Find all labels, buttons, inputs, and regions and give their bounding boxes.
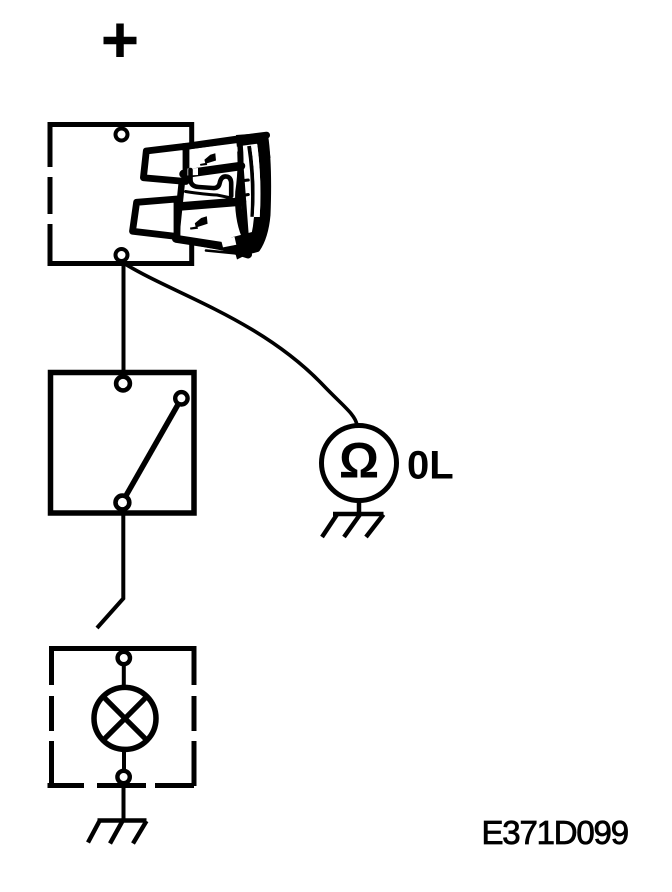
fuse top section mark <box>200 153 216 166</box>
fuse element channel <box>191 170 232 196</box>
fuse box top terminal <box>116 129 128 141</box>
lamp box (dashed component box) <box>48 646 197 786</box>
fuse side slot left border <box>247 146 254 217</box>
lamp wires inside box <box>122 664 126 772</box>
fuse bottom band <box>176 239 248 255</box>
fuse element lower edge <box>186 192 231 198</box>
wire below switch with open end <box>97 513 123 628</box>
wire below lamp box <box>122 782 126 820</box>
fuse right side black band <box>246 134 270 256</box>
switch lever <box>124 401 181 500</box>
fuse body top edge <box>183 135 267 147</box>
battery plus symbol <box>104 24 137 58</box>
ohmmeter ground stub <box>357 500 362 514</box>
lamp symbol circle <box>94 687 156 749</box>
fuse front separator 1 <box>184 166 242 174</box>
fuse bottom-right wedge <box>231 232 260 260</box>
fuse element notch in separator 1 <box>188 168 199 176</box>
switch box <box>51 373 195 514</box>
svg-text:0L: 0L <box>407 444 454 488</box>
fuse front separator 2 <box>180 202 243 207</box>
fuse bottom white notch <box>221 237 236 248</box>
fuse side slot <box>251 145 260 217</box>
lamp box top terminal <box>118 652 130 664</box>
fuse front/side divider <box>238 140 246 240</box>
ohmmeter ground <box>322 514 384 537</box>
fuse box bottom terminal <box>116 249 128 261</box>
blade fuse illustration <box>133 133 271 260</box>
switch lever terminal <box>175 392 187 404</box>
fuse bottom thin line <box>206 251 240 254</box>
fuse side face <box>239 135 269 252</box>
switch bottom terminal <box>116 496 130 510</box>
svg-text:Ω: Ω <box>339 433 379 489</box>
wire fuse terminal to ohmmeter (curved test lead) <box>124 263 358 425</box>
fuse upper blade <box>143 146 186 181</box>
wire fuse box to switch box <box>122 261 126 372</box>
ohmmeter body <box>322 426 397 501</box>
fuse lower blade <box>133 199 178 237</box>
fuse side small lines <box>240 180 248 196</box>
fuse side top white notch <box>237 146 247 152</box>
fuse body front face <box>176 140 248 253</box>
fuse box (dashed component box) <box>48 122 195 266</box>
svg-text:E371D099: E371D099 <box>482 814 628 851</box>
lamp ground <box>88 821 147 844</box>
lamp box bottom terminal <box>117 771 129 783</box>
fuse top-right black corner <box>236 133 271 159</box>
lamp symbol X <box>103 696 147 740</box>
switch top terminal <box>116 377 130 391</box>
fuse bottom section mark <box>190 216 208 229</box>
